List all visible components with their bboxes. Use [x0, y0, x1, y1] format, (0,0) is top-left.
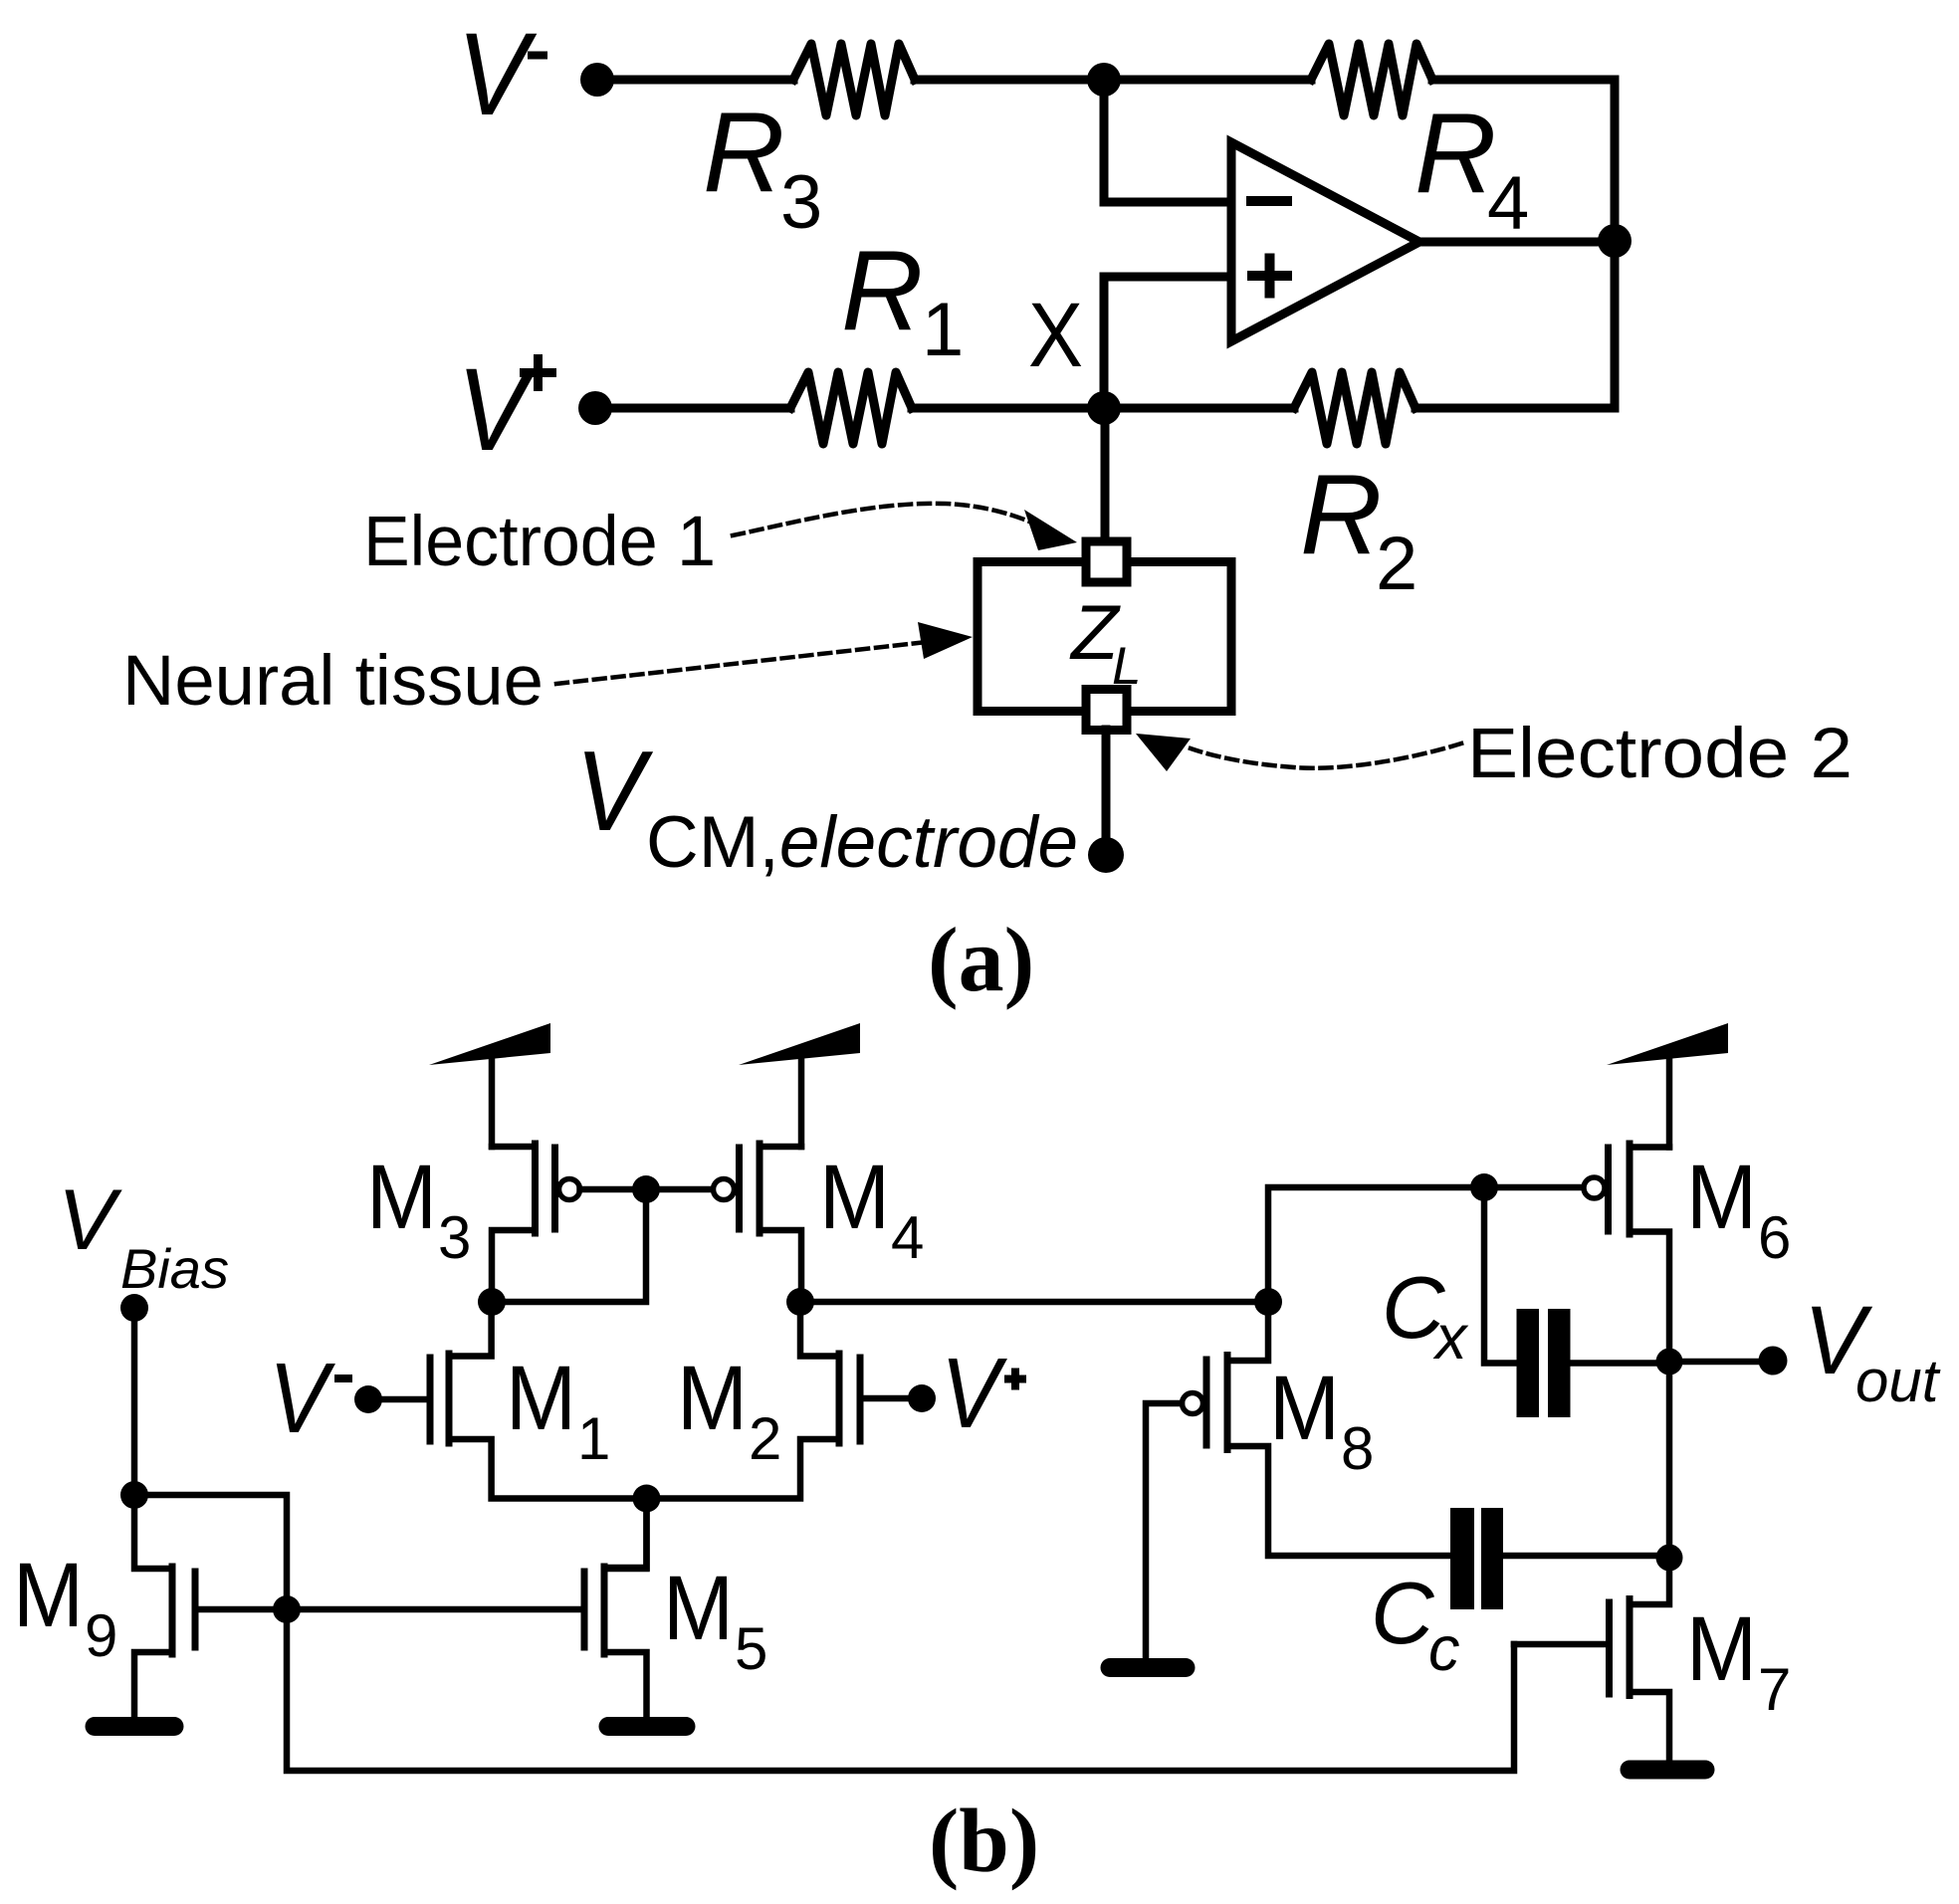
annotation arrow to neural tissue ZL — [556, 641, 936, 684]
svg-text:out: out — [1855, 1348, 1941, 1414]
wire — [1104, 80, 1231, 202]
svg-text:R: R — [1415, 91, 1496, 217]
wire — [1419, 238, 1615, 247]
svg-text:R: R — [841, 228, 923, 354]
svg-text:V: V — [457, 9, 537, 140]
label (a) — [928, 909, 1034, 1010]
resistor R1 — [790, 372, 912, 444]
label M8 — [1269, 1358, 1374, 1482]
label R4 — [1415, 91, 1529, 246]
transistor M9 — [134, 1495, 195, 1719]
label Electrode 1 — [363, 503, 716, 581]
svg-text:M: M — [506, 1348, 576, 1449]
transistor M6 — [1584, 1144, 1669, 1362]
label V+ (a) — [457, 344, 556, 476]
wire — [604, 1499, 647, 1569]
svg-text:M: M — [366, 1147, 437, 1248]
node M9/M5 gate junction — [273, 1595, 301, 1623]
svg-text:C: C — [1371, 1564, 1435, 1662]
svg-text:2: 2 — [1376, 522, 1417, 606]
resistor R2 — [1294, 372, 1415, 444]
svg-text:M: M — [1686, 1147, 1757, 1248]
svg-text:7: 7 — [1758, 1656, 1791, 1723]
wire — [1571, 1360, 1670, 1367]
wire — [1503, 1553, 1669, 1560]
svg-text:6: 6 — [1758, 1204, 1791, 1271]
resistor R4 — [1311, 44, 1432, 115]
svg-text:Electrode 2: Electrode 2 — [1467, 715, 1852, 793]
label M6 — [1686, 1147, 1791, 1271]
ground M7 — [1630, 1761, 1705, 1780]
node output — [1598, 224, 1632, 258]
wire — [1101, 408, 1110, 541]
supply flag M4 — [739, 1023, 860, 1065]
resistor R3 — [793, 44, 915, 115]
svg-text:L: L — [1112, 637, 1141, 696]
node Vout terminal — [1759, 1347, 1788, 1375]
node tail junction — [633, 1485, 661, 1513]
node mirror gate — [632, 1175, 660, 1203]
label V- (a) — [457, 9, 547, 140]
svg-text:x: x — [1432, 1303, 1469, 1373]
label R3 — [703, 90, 822, 245]
node M4 drain — [786, 1288, 814, 1316]
svg-text:Bias: Bias — [120, 1237, 229, 1300]
wire — [1484, 1187, 1517, 1364]
capacitor Cx — [1517, 1309, 1571, 1417]
transistor M8 — [1183, 1302, 1451, 1556]
wire — [915, 76, 1104, 85]
node VCM,electrode terminal — [1088, 837, 1124, 873]
wire — [1268, 1187, 1484, 1302]
label VBias — [58, 1172, 229, 1300]
label V+ (b) — [941, 1338, 1026, 1449]
label V- (b) — [269, 1343, 352, 1454]
wire — [131, 1308, 138, 1495]
label M4 — [819, 1147, 924, 1271]
annotation arrow to electrode 1 — [733, 504, 1043, 535]
svg-text:M: M — [677, 1348, 748, 1449]
label M3 — [366, 1147, 471, 1271]
node VBias junction — [120, 1481, 148, 1509]
wire — [1666, 1056, 1673, 1148]
svg-text:8: 8 — [1341, 1415, 1374, 1482]
wire — [1415, 258, 1615, 408]
svg-text:V: V — [457, 344, 537, 476]
svg-text:V: V — [941, 1338, 1007, 1449]
transistor M3 — [492, 1144, 580, 1302]
svg-text:R: R — [1300, 452, 1382, 578]
wire (bottom rail to M7 gate) — [287, 1609, 1514, 1771]
svg-text:M: M — [13, 1545, 84, 1646]
label Electrode 2 — [1467, 715, 1852, 793]
node M6 gate / Cx junction — [1470, 1173, 1498, 1201]
node V+ terminal (b) — [908, 1384, 936, 1412]
svg-text:3: 3 — [438, 1204, 471, 1271]
wire — [1669, 1359, 1759, 1366]
wire — [287, 1606, 584, 1613]
wire — [580, 1186, 714, 1193]
label M2 — [677, 1348, 781, 1472]
svg-text:1: 1 — [577, 1405, 610, 1472]
load ZL box (neural tissue) — [978, 562, 1231, 712]
ground M8 — [1110, 1658, 1186, 1677]
node V- terminal (b) — [354, 1385, 382, 1413]
svg-text:M: M — [1269, 1358, 1340, 1459]
label R2 — [1300, 452, 1417, 606]
svg-text:CM,electrode: CM,electrode — [646, 802, 1078, 883]
node Cc/M7 drain junction — [1656, 1545, 1683, 1572]
svg-text:M: M — [663, 1558, 734, 1659]
svg-text:X: X — [1028, 285, 1083, 386]
svg-text:Neural tissue: Neural tissue — [122, 642, 544, 721]
svg-text:3: 3 — [780, 160, 822, 245]
svg-text:Electrode 1: Electrode 1 — [363, 503, 716, 581]
svg-text:M: M — [1686, 1598, 1757, 1700]
label VCM,electrode — [575, 729, 1078, 883]
wire — [595, 404, 790, 413]
svg-text:1: 1 — [922, 288, 964, 372]
capacitor Cc — [1450, 1508, 1503, 1609]
wire — [1666, 1362, 1673, 1558]
svg-text:2: 2 — [749, 1405, 781, 1472]
label (b) — [929, 1791, 1039, 1891]
wire — [1102, 730, 1111, 841]
svg-text:5: 5 — [735, 1615, 767, 1682]
wire (M7 gate) — [1514, 1641, 1610, 1648]
svg-text:4: 4 — [891, 1204, 924, 1271]
node VBias terminal — [120, 1294, 148, 1322]
node second stage input — [1254, 1288, 1282, 1316]
svg-text:M: M — [819, 1147, 890, 1248]
wire — [1104, 76, 1311, 85]
transistor M5 — [584, 1500, 647, 1719]
label X — [1028, 285, 1083, 386]
wire — [1484, 1184, 1583, 1191]
label Neural tissue — [122, 642, 544, 721]
wire (M3 gate-drain tie) — [492, 1189, 646, 1302]
wire — [798, 1056, 805, 1147]
label M5 — [663, 1558, 767, 1682]
svg-text:(b): (b) — [929, 1791, 1039, 1891]
wire — [1432, 80, 1615, 241]
svg-text:(a): (a) — [928, 909, 1034, 1010]
wire (M8 gate to ground) — [1146, 1403, 1182, 1660]
wire — [860, 1395, 922, 1402]
supply flag M6 — [1607, 1023, 1728, 1065]
electrode 2 — [1086, 690, 1127, 731]
label Vout — [1804, 1286, 1941, 1414]
node V+ terminal — [578, 391, 612, 425]
svg-text:V: V — [58, 1172, 123, 1268]
label M9 — [13, 1545, 117, 1669]
label R1 — [841, 228, 964, 372]
wire — [597, 76, 793, 85]
node V- terminal — [580, 63, 614, 97]
label Cx — [1382, 1258, 1469, 1373]
svg-text:9: 9 — [85, 1602, 117, 1669]
wire — [489, 1056, 496, 1147]
wire (first to second stage) — [800, 1299, 1268, 1306]
node Vout junction — [1656, 1349, 1683, 1375]
ground M9 — [95, 1717, 174, 1736]
transistor M7 — [1610, 1558, 1670, 1762]
electrode 1 — [1086, 541, 1127, 582]
transistor M2 — [647, 1302, 861, 1499]
transistor M4 — [714, 1144, 802, 1302]
transistor M1 — [430, 1302, 647, 1499]
svg-text:c: c — [1428, 1614, 1460, 1684]
wire — [1104, 277, 1231, 408]
label M1 — [506, 1348, 610, 1472]
svg-text:V: V — [575, 729, 653, 855]
annotation arrow to electrode 2 — [1191, 743, 1461, 768]
supply flag M3 — [429, 1023, 550, 1065]
label ZL — [1069, 588, 1141, 696]
wire — [195, 1606, 287, 1613]
ground M5 — [608, 1717, 686, 1736]
svg-text:R: R — [703, 90, 784, 216]
svg-text:V: V — [269, 1343, 335, 1454]
node X — [1087, 391, 1121, 425]
wire — [368, 1396, 430, 1403]
wire — [1104, 404, 1294, 413]
op-amp U1 — [1231, 142, 1419, 341]
label M7 — [1686, 1598, 1791, 1723]
wire — [134, 1495, 287, 1609]
node junction R3/R4/minus-input — [1087, 63, 1121, 97]
label Cc — [1371, 1564, 1460, 1684]
wire — [912, 404, 1104, 413]
svg-text:4: 4 — [1487, 161, 1529, 246]
node M3 drain — [478, 1288, 506, 1316]
